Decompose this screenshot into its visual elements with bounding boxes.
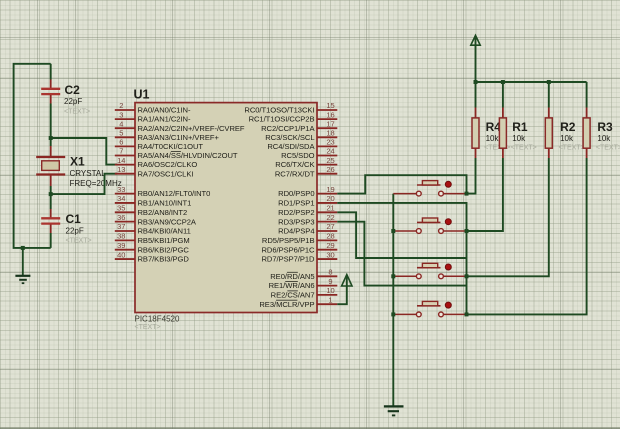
- svg-text:RC2/CCP1/P1A: RC2/CCP1/P1A: [261, 124, 315, 133]
- svg-text:<TEXT>: <TEXT>: [135, 324, 161, 331]
- svg-text:34: 34: [117, 194, 125, 203]
- capacitor C1: [41, 194, 60, 248]
- power symbol (VCC arrow at pin 1 RE3/MCLR): [337, 275, 352, 305]
- property text C1: [66, 238, 92, 245]
- value R1 10k: [512, 134, 526, 143]
- svg-text:RC7/RX/DT: RC7/RX/DT: [275, 169, 315, 178]
- pin 28 (RD5/PSP5/P1B) right stub, number and name: [262, 232, 337, 245]
- pin 33 (RB0/AN12/FLT0/INT0) left stub, number and name: [115, 185, 211, 198]
- svg-text:R2: R2: [560, 120, 576, 134]
- value R2 10k: [560, 134, 574, 143]
- svg-text:RB2/AN8/INT2: RB2/AN8/INT2: [138, 208, 188, 217]
- node C (ground tap junction): [21, 246, 25, 250]
- property text U1: [135, 324, 161, 331]
- svg-text:RE2/CS/AN7: RE2/CS/AN7: [271, 291, 315, 300]
- wire R3 to node G: [467, 158, 587, 314]
- wire RD0 pin 19 to node D: [337, 175, 466, 193]
- svg-text:PIC18F4520: PIC18F4520: [135, 315, 180, 324]
- svg-text:RD2/PSP2: RD2/PSP2: [278, 208, 314, 217]
- svg-text:35: 35: [117, 204, 125, 213]
- svg-text:RD5/PSP5/P1B: RD5/PSP5/P1B: [262, 236, 315, 245]
- svg-text:RB6/KBI2/PGC: RB6/KBI2/PGC: [138, 245, 190, 254]
- property text R3: [596, 144, 620, 151]
- node button SW3 right junction: [465, 274, 469, 278]
- svg-text:C2: C2: [65, 83, 81, 97]
- svg-text:38: 38: [117, 232, 125, 241]
- wire left loop (C2/X1/C1 common left rail): [14, 64, 51, 248]
- svg-text:27: 27: [326, 222, 334, 231]
- svg-text:9: 9: [328, 277, 332, 286]
- svg-text:<TEXT>: <TEXT>: [511, 144, 537, 151]
- svg-text:RD1/PSP1: RD1/PSP1: [278, 199, 314, 208]
- wire OSC2 (node A to pin 14): [51, 138, 117, 165]
- pin 1 (RE3/MCLR/VPP) right stub, number and name: [259, 295, 337, 308]
- svg-text:3: 3: [119, 110, 123, 119]
- value X1 FREQ=20MHz: [70, 179, 122, 188]
- svg-text:17: 17: [326, 119, 334, 128]
- node button SW1 right junction: [465, 192, 469, 196]
- svg-text:29: 29: [326, 241, 334, 250]
- svg-text:<TEXT>: <TEXT>: [596, 144, 620, 151]
- pin 7 (RA5/AN4/SS/HLVDIN/C2OUT) left stub, number and name: [115, 147, 238, 160]
- label C1: [66, 212, 82, 226]
- label R4: [486, 120, 502, 134]
- pin 29 (RD6/PSP6/P1C) right stub, number and name: [261, 241, 337, 254]
- pin 22 (RD3/PSP3) right stub, number and name: [278, 213, 337, 226]
- label R3: [597, 120, 613, 134]
- svg-text:39: 39: [117, 241, 125, 250]
- svg-text:22pF: 22pF: [66, 227, 84, 236]
- svg-text:RE1/WR/AN6: RE1/WR/AN6: [269, 281, 315, 290]
- svg-text:<TEXT>: <TEXT>: [66, 238, 92, 245]
- pin 18 (RC3/SCK/SCL) right stub, number and name: [265, 129, 337, 142]
- svg-text:25: 25: [326, 156, 334, 165]
- pin 17 (RC2/CCP1/P1A) right stub, number and name: [261, 119, 337, 132]
- svg-text:RE3/MCLR/VPP: RE3/MCLR/VPP: [259, 300, 314, 309]
- pin 24 (RC5/SDO) right stub, number and name: [281, 147, 337, 160]
- node A (C2/X1/OSC2 junction): [49, 136, 53, 140]
- node button SW3 left junction: [391, 274, 395, 278]
- label R2: [560, 120, 576, 134]
- svg-text:13: 13: [117, 165, 125, 174]
- svg-text:36: 36: [117, 213, 125, 222]
- svg-text:RA4/T0CKI/C1OUT: RA4/T0CKI/C1OUT: [138, 142, 204, 151]
- pin 36 (RB3/AN9/CCP2A) left stub, number and name: [115, 213, 197, 226]
- pin 9 (RE1/WR/AN6) right stub, number and name: [269, 277, 338, 290]
- svg-text:4: 4: [119, 119, 123, 128]
- pin 2 (RA0/AN0/C1IN-) left stub, number and name: [115, 101, 191, 114]
- label C2: [65, 83, 81, 97]
- svg-text:22pF: 22pF: [64, 97, 82, 106]
- crystal X1: [36, 138, 65, 194]
- wire RD2 pin 21 to node F: [337, 212, 466, 276]
- pin 21 (RD2/PSP2) right stub, number and name: [278, 204, 337, 217]
- pin 30 (RD7/PSP7/P1D) right stub, number and name: [261, 250, 337, 263]
- svg-text:RD3/PSP3: RD3/PSP3: [278, 217, 314, 226]
- svg-text:RA3/AN3/C1IN+/VREF+: RA3/AN3/C1IN+/VREF+: [138, 133, 220, 142]
- svg-text:RA0/AN0/C1IN-: RA0/AN0/C1IN-: [138, 106, 191, 115]
- pin 5 (RA3/AN3/C1IN+/VREF+) left stub, number and name: [115, 129, 220, 142]
- svg-text:10: 10: [326, 286, 334, 295]
- label X1: [70, 155, 85, 169]
- resistor R4: [472, 82, 479, 158]
- pin 35 (RB2/AN8/INT2) left stub, number and name: [115, 204, 187, 217]
- svg-text:10k: 10k: [560, 134, 574, 143]
- node VCC-R2: [547, 80, 551, 84]
- resistor R1: [499, 82, 506, 158]
- svg-text:RB7/KBI3/PGD: RB7/KBI3/PGD: [138, 255, 190, 264]
- svg-text:RA5/AN4/SS/HLVDIN/C2OUT: RA5/AN4/SS/HLVDIN/C2OUT: [138, 151, 238, 160]
- wire bottom edge line: [0, 427, 620, 429]
- svg-text:<TEXT>: <TEXT>: [559, 144, 585, 151]
- pin 23 (RC4/SDI/SDA) right stub, number and name: [267, 138, 337, 151]
- pin 37 (RB4/KBI0/AN11) left stub, number and name: [115, 222, 191, 235]
- svg-text:<TEXT>: <TEXT>: [64, 109, 90, 116]
- svg-text:C1: C1: [66, 212, 82, 226]
- op-amp U1 body (PIC18F4520 microcontroller): [135, 103, 317, 313]
- label R1: [512, 120, 528, 134]
- value U1 PIC18F4520: [135, 315, 180, 324]
- svg-text:RC4/SDI/SDA: RC4/SDI/SDA: [267, 142, 315, 151]
- svg-text:RB4/KBI0/AN11: RB4/KBI0/AN11: [138, 227, 191, 236]
- svg-text:10k: 10k: [512, 134, 526, 143]
- node button SW2 right junction: [465, 229, 469, 233]
- wire VCC bus: [476, 81, 587, 83]
- push button SW1: [393, 181, 466, 196]
- svg-text:7: 7: [119, 147, 123, 156]
- svg-text:37: 37: [117, 222, 125, 231]
- pin 15 (RC0/T1OSO/T13CKI) right stub, number and name: [244, 101, 337, 114]
- svg-text:23: 23: [326, 138, 334, 147]
- value R3 10k: [597, 134, 611, 143]
- svg-text:RB1/AN10/INT1: RB1/AN10/INT1: [138, 199, 192, 208]
- svg-text:R3: R3: [597, 120, 613, 134]
- pin 38 (RB5/KBI1/PGM) left stub, number and name: [115, 232, 190, 245]
- svg-text:RD7/PSP7/P1D: RD7/PSP7/P1D: [261, 255, 315, 264]
- pin 39 (RB6/KBI2/PGC) left stub, number and name: [115, 241, 190, 254]
- svg-text:15: 15: [326, 101, 334, 110]
- wire R4 to node D: [467, 158, 476, 194]
- svg-text:1: 1: [328, 295, 332, 304]
- svg-text:RD4/PSP4: RD4/PSP4: [278, 227, 314, 236]
- capacitor C2: [41, 64, 60, 138]
- svg-text:RC5/SDO: RC5/SDO: [281, 151, 315, 160]
- value R4 10k: [486, 134, 500, 143]
- property text R4: [484, 144, 510, 151]
- property text C2: [64, 109, 90, 116]
- pin 8 (RE0/RD/AN5) right stub, number and name: [270, 268, 337, 281]
- push button SW4: [393, 301, 466, 316]
- svg-text:18: 18: [326, 129, 334, 138]
- wire RD1 pin 20 to node E: [337, 203, 466, 231]
- svg-text:20: 20: [326, 194, 334, 203]
- pin 34 (RB1/AN10/INT1) left stub, number and name: [115, 194, 191, 207]
- pin 3 (RA1/AN1/C2IN-) left stub, number and name: [115, 110, 191, 123]
- pin 26 (RC7/RX/DT) right stub, number and name: [275, 165, 337, 178]
- ground (left, crystal circuit): [15, 248, 30, 283]
- power symbol (VCC arrow, top): [471, 35, 480, 82]
- pin 40 (RB7/KBI3/PGD) left stub, number and name: [115, 250, 190, 263]
- wire OSC1 (node B to pin 13): [51, 174, 117, 194]
- svg-text:RA7/OSC1/CLKI: RA7/OSC1/CLKI: [138, 169, 194, 178]
- ground (bottom, buttons common): [384, 406, 404, 415]
- pin 13 (RA7/OSC1/CLKI) left stub, number and name: [115, 165, 194, 178]
- wire R1 to node E: [467, 158, 503, 231]
- push button SW2: [393, 218, 466, 233]
- svg-text:RC6/TX/CK: RC6/TX/CK: [275, 160, 314, 169]
- svg-text:RA1/AN1/C2IN-: RA1/AN1/C2IN-: [138, 115, 191, 124]
- pin 27 (RD4/PSP4) right stub, number and name: [278, 222, 337, 235]
- resistor R3: [583, 82, 590, 158]
- svg-text:FREQ=20MHz: FREQ=20MHz: [70, 179, 122, 188]
- value C1 22pF: [66, 227, 84, 236]
- push button SW3: [393, 263, 466, 278]
- svg-text:22: 22: [326, 213, 334, 222]
- svg-text:14: 14: [117, 156, 125, 165]
- node VCC-R1: [501, 80, 505, 84]
- svg-text:RB5/KBI1/PGM: RB5/KBI1/PGM: [138, 236, 190, 245]
- svg-text:33: 33: [117, 185, 125, 194]
- node button SW4 right junction: [465, 312, 469, 316]
- svg-text:28: 28: [326, 232, 334, 241]
- node button SW4 left junction: [391, 312, 395, 316]
- svg-text:16: 16: [326, 110, 334, 119]
- svg-text:RB3/AN9/CCP2A: RB3/AN9/CCP2A: [138, 217, 197, 226]
- node B (X1/C1/OSC1 junction): [49, 192, 53, 196]
- label U1: [134, 88, 150, 102]
- property text R1: [511, 144, 537, 151]
- svg-text:RD6/PSP6/P1C: RD6/PSP6/P1C: [261, 245, 315, 254]
- pin 10 (RE2/CS/AN7) right stub, number and name: [271, 286, 338, 299]
- svg-text:RE0/RD/AN5: RE0/RD/AN5: [270, 272, 314, 281]
- svg-text:RB0/AN12/FLT0/INT0: RB0/AN12/FLT0/INT0: [138, 189, 211, 198]
- svg-text:RC0/T1OSO/T13CKI: RC0/T1OSO/T13CKI: [244, 106, 314, 115]
- svg-text:30: 30: [326, 250, 334, 259]
- pin 20 (RD1/PSP1) right stub, number and name: [278, 194, 337, 207]
- svg-text:CRYSTAL: CRYSTAL: [70, 169, 107, 178]
- svg-text:5: 5: [119, 129, 123, 138]
- svg-text:R1: R1: [512, 120, 528, 134]
- svg-text:RA6/OSC2/CLKO: RA6/OSC2/CLKO: [138, 160, 198, 169]
- svg-text:40: 40: [117, 250, 125, 259]
- value X1 CRYSTAL: [70, 169, 107, 178]
- node button SW2 left junction: [391, 229, 395, 233]
- wire R2 to node F: [467, 158, 549, 276]
- svg-text:U1: U1: [134, 88, 150, 102]
- svg-text:RC1/T1OSI/CCP2B: RC1/T1OSI/CCP2B: [249, 115, 315, 124]
- pin 19 (RD0/PSP0) right stub, number and name: [278, 185, 337, 198]
- svg-text:10k: 10k: [486, 134, 500, 143]
- value C2 22pF: [64, 97, 82, 106]
- svg-text:24: 24: [326, 147, 334, 156]
- svg-text:6: 6: [119, 138, 123, 147]
- pin 25 (RC6/TX/CK) right stub, number and name: [275, 156, 337, 169]
- node VCC-R4: [474, 80, 478, 84]
- svg-text:8: 8: [328, 268, 332, 277]
- pin 14 (RA6/OSC2/CLKO) left stub, number and name: [115, 156, 198, 169]
- svg-text:10k: 10k: [597, 134, 611, 143]
- svg-text:2: 2: [119, 101, 123, 110]
- svg-text:21: 21: [326, 204, 334, 213]
- property text R2: [559, 144, 585, 151]
- svg-text:RA2/AN2/C2IN+/VREF-/CVREF: RA2/AN2/C2IN+/VREF-/CVREF: [138, 124, 245, 133]
- svg-text:RD0/PSP0: RD0/PSP0: [278, 189, 314, 198]
- svg-text:X1: X1: [70, 155, 85, 169]
- resistor R2: [545, 82, 552, 158]
- wire RD3 pin 22 to node G: [337, 222, 466, 315]
- svg-text:RC3/SCK/SCL: RC3/SCK/SCL: [265, 133, 314, 142]
- pin 16 (RC1/T1OSI/CCP2B) right stub, number and name: [249, 110, 338, 123]
- wire ground rail (buttons common left): [392, 194, 394, 407]
- svg-text:19: 19: [326, 185, 334, 194]
- pin 6 (RA4/T0CKI/C1OUT) left stub, number and name: [115, 138, 204, 151]
- svg-text:26: 26: [326, 165, 334, 174]
- pin 4 (RA2/AN2/C2IN+/VREF-/CVREF) left stub, number and name: [115, 119, 245, 132]
